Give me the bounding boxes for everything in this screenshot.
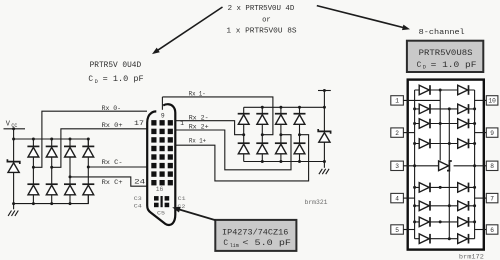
svg-text:7: 7 — [490, 195, 494, 202]
svg-text:IP4273/74CZ16: IP4273/74CZ16 — [222, 229, 289, 237]
svg-text:4: 4 — [395, 195, 399, 202]
svg-text:3: 3 — [395, 163, 399, 170]
svg-text:Rx 0+: Rx 0+ — [102, 122, 123, 130]
svg-text:2 x PRTR5V0U 4D: 2 x PRTR5V0U 4D — [228, 5, 295, 13]
svg-text:C1: C1 — [178, 195, 187, 202]
svg-text:< 5.0 pF: < 5.0 pF — [242, 240, 291, 248]
svg-text:1 x PRTR5V0U 8S: 1 x PRTR5V0U 8S — [226, 28, 296, 36]
svg-text:brm321: brm321 — [305, 199, 328, 206]
svg-text:C: C — [223, 240, 228, 248]
svg-text:= 1.0 pF: = 1.0 pF — [431, 62, 477, 70]
svg-text:brm172: brm172 — [459, 253, 484, 260]
svg-text:D: D — [95, 79, 98, 85]
svg-text:8-channel: 8-channel — [419, 29, 466, 37]
svg-text:1: 1 — [395, 98, 399, 105]
svg-text:PRTR5V 0U4D: PRTR5V 0U4D — [90, 62, 142, 70]
svg-text:C: C — [417, 62, 422, 70]
svg-text:8: 8 — [490, 163, 494, 170]
svg-text:PRTR5V0U8S: PRTR5V0U8S — [419, 50, 473, 58]
svg-text:24: 24 — [134, 178, 145, 185]
svg-text:Rx 2-: Rx 2- — [189, 114, 209, 122]
svg-text:9: 9 — [161, 113, 165, 120]
svg-text:10: 10 — [488, 98, 496, 105]
svg-text:= 1.0 pF: = 1.0 pF — [103, 76, 144, 84]
svg-text:17: 17 — [134, 120, 144, 127]
svg-text:Rx 2+: Rx 2+ — [189, 123, 209, 131]
svg-text:Rx 1+: Rx 1+ — [189, 138, 206, 146]
svg-text:Rx C+: Rx C+ — [102, 179, 123, 187]
svg-text:16: 16 — [156, 186, 164, 193]
svg-text:6: 6 — [490, 227, 494, 234]
svg-text:C: C — [88, 76, 93, 84]
svg-text:or: or — [262, 16, 271, 24]
svg-text:lim: lim — [230, 243, 239, 249]
svg-text:Rx 0-: Rx 0- — [102, 105, 122, 113]
svg-text:2: 2 — [395, 130, 399, 137]
svg-text:9: 9 — [490, 130, 494, 137]
svg-text:C4: C4 — [134, 203, 143, 210]
svg-text:Rx 1-: Rx 1- — [189, 90, 206, 98]
svg-text:Rx C-: Rx C- — [102, 159, 123, 167]
svg-text:D: D — [423, 65, 426, 71]
svg-text:C5: C5 — [157, 210, 166, 217]
svg-text:5: 5 — [395, 227, 399, 234]
svg-text:C3: C3 — [134, 195, 143, 202]
